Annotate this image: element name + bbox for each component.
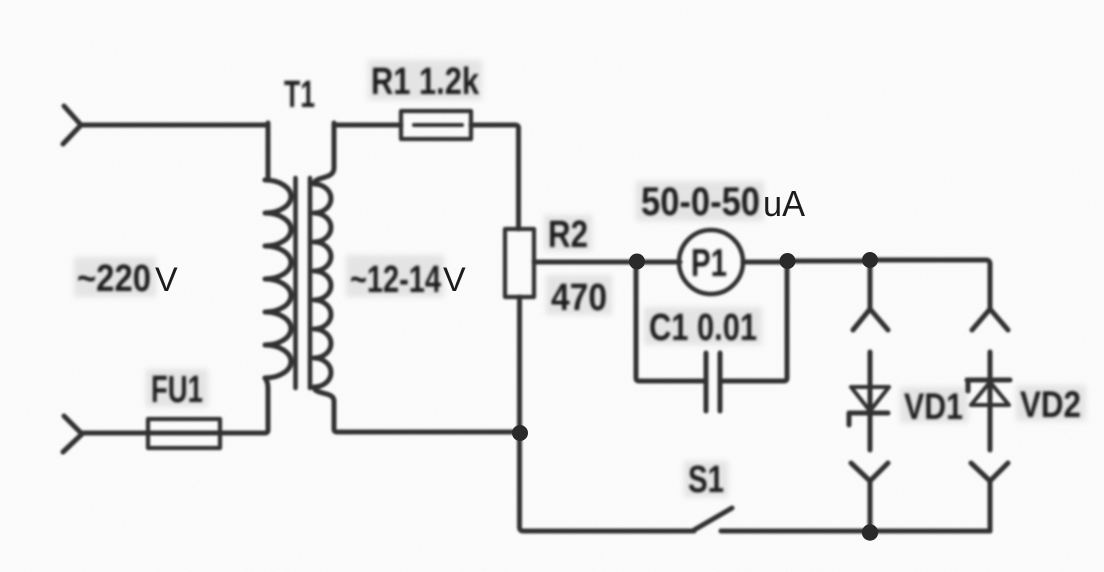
wire fuse to terminal	[82, 431, 148, 436]
node C junction dot	[862, 252, 878, 268]
wire node A to meter	[636, 260, 680, 265]
wire top-left horizontal	[81, 123, 268, 128]
label ~220	[77, 258, 151, 300]
label ~12-14	[350, 259, 441, 301]
svg-text:50-0-50: 50-0-50	[641, 180, 760, 224]
resistor R1	[401, 111, 471, 139]
transformer core	[296, 178, 311, 388]
label VD1	[904, 386, 963, 427]
resistor R2	[505, 229, 534, 297]
scan patch 12-14 label	[346, 255, 444, 297]
svg-text:S1: S1	[688, 459, 724, 501]
scan patch 470 label	[546, 275, 612, 315]
label FU1	[151, 369, 203, 411]
capacitor C1	[706, 353, 720, 411]
scan patch S1 label	[684, 461, 728, 497]
scan patch C1 label	[644, 307, 762, 345]
socket jack bottom right	[971, 463, 1008, 531]
node B junction dot	[780, 253, 796, 269]
switch S1 blade	[694, 508, 732, 530]
meter P1	[679, 230, 743, 294]
label uA	[763, 183, 805, 224]
label 470	[551, 277, 607, 319]
wire switch to bottom junction	[721, 529, 870, 534]
svg-text:~220: ~220	[77, 258, 151, 300]
wire R1 to right corner	[471, 125, 519, 229]
junction dot transformer bottom	[512, 425, 528, 441]
scan patch 220 label	[74, 257, 156, 297]
wire bottom junction to right corner	[870, 529, 990, 534]
scan patch FU1 label	[146, 369, 208, 407]
svg-text:R1 1.2k: R1 1.2k	[371, 61, 480, 103]
wire node C to top-right corner	[870, 260, 990, 309]
fuse FU1	[148, 419, 220, 448]
socket jack top left	[853, 260, 888, 330]
input terminal X1 top	[63, 106, 81, 144]
wire tap R2 to node A	[534, 260, 636, 265]
scan patch 50-0-50 label	[636, 181, 764, 221]
wire meter to node B	[743, 260, 787, 265]
label P1	[691, 242, 727, 285]
input terminal X2 bottom	[63, 416, 82, 452]
svg-text:V: V	[443, 261, 466, 299]
transformer T1 primary winding	[265, 180, 291, 378]
transformer T1 secondary winding	[314, 123, 334, 401]
label R1 1.2k	[371, 61, 480, 103]
wire C1 right branch	[720, 261, 787, 381]
wire primary top vertical	[265, 123, 268, 180]
label 50-0-50	[641, 180, 760, 224]
socket jack top right	[972, 309, 1008, 330]
label T1	[284, 74, 315, 116]
scan patch R2 label	[544, 215, 592, 251]
svg-text:R2: R2	[548, 214, 588, 256]
svg-text:T1: T1	[284, 74, 315, 116]
zener diode VD1	[849, 352, 889, 450]
svg-text:VD1: VD1	[904, 386, 963, 427]
svg-text:uA: uA	[763, 183, 805, 224]
wire R2 down to bottom junction and switch corner	[520, 297, 695, 531]
label VD2	[1020, 384, 1081, 425]
wire node B to node C	[787, 259, 870, 264]
wire secondary bottom to junction	[334, 401, 520, 432]
junction dot switch output	[862, 524, 878, 540]
label S1	[688, 459, 724, 501]
scan patch VD2 label	[1016, 385, 1086, 421]
svg-text:C1 0.01: C1 0.01	[649, 307, 757, 349]
svg-text:P1: P1	[691, 242, 727, 285]
node A junction dot	[629, 254, 645, 270]
scan patch VD1 label	[900, 387, 968, 423]
label V 12-14	[443, 261, 466, 299]
svg-text:FU1: FU1	[151, 369, 203, 411]
socket jack bottom left	[851, 463, 888, 531]
svg-text:470: 470	[551, 277, 607, 319]
wire secondary top to R1	[334, 123, 401, 128]
svg-text:~12-14: ~12-14	[350, 259, 441, 301]
label C1 0.01	[649, 307, 757, 349]
label R2	[548, 214, 588, 256]
svg-text:VD2: VD2	[1020, 384, 1081, 425]
wire C1 left branch	[636, 262, 706, 381]
svg-text:V: V	[155, 261, 178, 299]
label V 220	[155, 261, 178, 299]
scan patch R1 label	[368, 60, 482, 100]
zener diode VD2	[967, 352, 1010, 450]
wire primary bottom vertical	[220, 378, 268, 433]
